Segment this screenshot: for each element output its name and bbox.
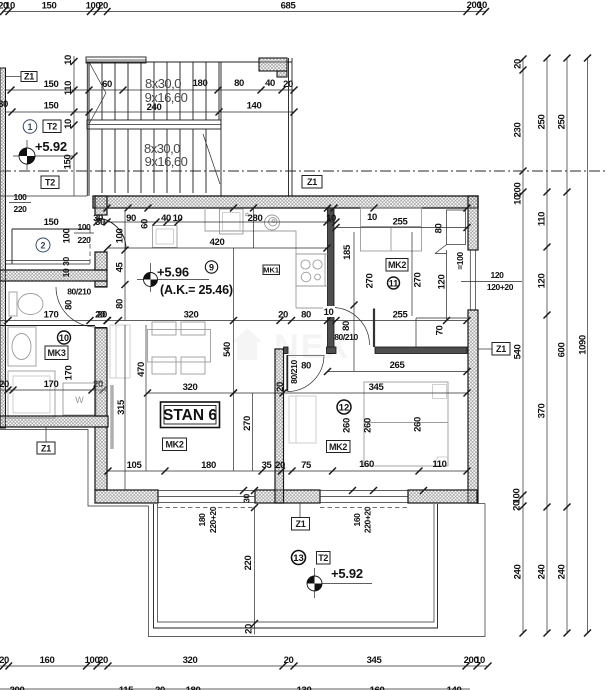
bottom wall segment left bbox=[95, 490, 158, 503]
bottom dimension line 1 bbox=[0, 655, 492, 670]
sliding panel gray bbox=[110, 385, 114, 449]
WC/bath partition line bbox=[0, 325, 95, 327]
right wall window 120 bbox=[468, 250, 478, 310]
svg-text:150: 150 bbox=[63, 155, 74, 170]
balcony dashed overhead line bbox=[158, 507, 408, 509]
room11 door arc bbox=[332, 308, 370, 346]
svg-text:=100: =100 bbox=[455, 252, 465, 270]
room circle 11 bbox=[388, 277, 400, 289]
svg-text:250: 250 bbox=[557, 115, 568, 130]
svg-text:100: 100 bbox=[14, 192, 28, 202]
WC dim line y320.5 bbox=[0, 310, 111, 325]
svg-text:Z1: Z1 bbox=[307, 177, 317, 187]
svg-text:600: 600 bbox=[557, 343, 568, 358]
kitchen dim line 420 bbox=[104, 237, 331, 252]
bed bbox=[364, 382, 448, 466]
svg-text:20: 20 bbox=[283, 79, 293, 90]
window spec 100/220 room2 bbox=[74, 222, 94, 245]
kitchen sink bbox=[220, 209, 249, 234]
svg-text:80: 80 bbox=[301, 310, 311, 321]
svg-text:270: 270 bbox=[413, 273, 424, 288]
svg-text:185: 185 bbox=[342, 244, 353, 260]
svg-text:240: 240 bbox=[147, 102, 162, 113]
svg-text:30: 30 bbox=[0, 99, 8, 110]
svg-text:255: 255 bbox=[393, 310, 409, 321]
svg-text:40: 40 bbox=[161, 213, 171, 224]
svg-text:T2: T2 bbox=[45, 178, 55, 188]
toilet tank bbox=[9, 292, 17, 316]
svg-text:20: 20 bbox=[512, 501, 523, 511]
svg-text:20: 20 bbox=[278, 310, 288, 321]
section dash-dot axis line bbox=[0, 170, 606, 172]
svg-text:90: 90 bbox=[126, 213, 136, 224]
room label box MK3 bbox=[45, 346, 68, 360]
svg-text:T2: T2 bbox=[318, 553, 328, 563]
svg-text:10: 10 bbox=[324, 307, 334, 318]
room label box MK2 living bbox=[163, 438, 187, 451]
ticks on top wall inner line bbox=[104, 205, 471, 212]
dimension line y90 bbox=[5, 78, 298, 94]
living dim line y320.5 bbox=[97, 306, 470, 324]
stove with burners bbox=[296, 254, 325, 286]
svg-text:10: 10 bbox=[61, 268, 71, 277]
stove spiral vent bbox=[265, 215, 280, 230]
balcony parapet double line bbox=[154, 504, 438, 628]
svg-text:+5.92: +5.92 bbox=[35, 139, 67, 154]
svg-text:70: 70 bbox=[435, 326, 446, 336]
bottom wall segment middle bbox=[255, 490, 320, 503]
svg-text:220: 220 bbox=[14, 204, 28, 214]
corridor dim 265 bbox=[301, 360, 470, 375]
stairwell right edge bbox=[220, 62, 222, 196]
room circle 12 bbox=[337, 400, 351, 414]
room circle 10 bbox=[58, 331, 71, 344]
svg-text:30: 30 bbox=[61, 257, 71, 266]
svg-text:120: 120 bbox=[437, 275, 448, 290]
door type box T2 lower bbox=[41, 176, 59, 189]
room circle 13 bbox=[292, 551, 306, 565]
svg-text:20: 20 bbox=[155, 685, 165, 690]
stair treads lower flight bbox=[89, 129, 206, 193]
balcony outer facade line bbox=[149, 504, 486, 637]
svg-text:150: 150 bbox=[44, 79, 59, 90]
svg-text:470: 470 bbox=[136, 362, 147, 377]
svg-text:345: 345 bbox=[369, 382, 385, 393]
washbasin bbox=[8, 327, 36, 366]
svg-text:220+20: 220+20 bbox=[208, 506, 218, 533]
svg-text:80: 80 bbox=[115, 299, 126, 309]
bottom wall window opening left bbox=[158, 491, 255, 503]
kitchen appliance square bbox=[153, 226, 178, 248]
stair top landing bar bbox=[86, 57, 146, 63]
svg-text:Z1: Z1 bbox=[24, 72, 34, 82]
svg-text:11: 11 bbox=[389, 279, 399, 289]
svg-text:10: 10 bbox=[59, 333, 69, 343]
interior dark wall kitchen/room11 bbox=[328, 208, 335, 354]
window spec rotated right 160/220+20 bbox=[352, 506, 373, 533]
svg-text:315: 315 bbox=[116, 399, 127, 415]
level symbol kitchen bbox=[137, 263, 209, 292]
bottom wall outer stub right bbox=[477, 503, 485, 505]
svg-text:20: 20 bbox=[244, 624, 255, 634]
svg-text:MK1: MK1 bbox=[263, 266, 279, 275]
stairwell left wall bbox=[87, 62, 89, 196]
dim line y393 bbox=[144, 382, 471, 397]
svg-text:220: 220 bbox=[78, 235, 92, 245]
main apartment left wall segments bbox=[95, 196, 107, 490]
svg-text:STAN 6: STAN 6 bbox=[163, 407, 217, 424]
svg-text:150: 150 bbox=[44, 217, 59, 228]
svg-text:10: 10 bbox=[513, 195, 524, 205]
chain x146 bbox=[136, 325, 147, 471]
svg-text:110: 110 bbox=[432, 459, 446, 470]
living chain x125 bbox=[115, 212, 129, 321]
svg-text:MK2: MK2 bbox=[329, 442, 347, 452]
right vertical dimension chain line 1 bbox=[512, 56, 527, 637]
bottom dimension line 2 partial bbox=[0, 685, 470, 690]
svg-text:60: 60 bbox=[140, 219, 151, 229]
svg-text:180: 180 bbox=[193, 78, 208, 89]
svg-text:80: 80 bbox=[64, 300, 75, 310]
room circle 9 bbox=[205, 261, 217, 273]
svg-text:20: 20 bbox=[98, 655, 108, 666]
svg-text:140: 140 bbox=[247, 101, 262, 112]
svg-text:30: 30 bbox=[93, 213, 103, 224]
svg-text:180: 180 bbox=[197, 513, 207, 527]
svg-text:Z1: Z1 bbox=[296, 519, 306, 529]
svg-text:170: 170 bbox=[44, 379, 59, 390]
svg-text:240: 240 bbox=[557, 565, 568, 580]
svg-text:150: 150 bbox=[42, 1, 57, 12]
svg-text:20: 20 bbox=[0, 379, 9, 390]
svg-text:20: 20 bbox=[275, 382, 286, 392]
svg-text:12: 12 bbox=[339, 403, 350, 414]
svg-text:160: 160 bbox=[359, 459, 374, 470]
door type box T2 balcony bbox=[317, 552, 331, 565]
ticks at bottom wall bbox=[240, 487, 427, 494]
svg-text:270: 270 bbox=[365, 274, 376, 289]
right vertical dimension chain line 3 bbox=[557, 55, 571, 637]
svg-text:160: 160 bbox=[370, 685, 385, 690]
chain x125 lower 315 bbox=[116, 325, 127, 490]
svg-text:160: 160 bbox=[352, 513, 362, 527]
top dimension line bbox=[0, 0, 489, 15]
WC door jambs bbox=[95, 287, 107, 328]
room circle 1 bbox=[23, 120, 37, 134]
chairs bbox=[152, 322, 205, 374]
room11 corner closet bbox=[435, 210, 466, 254]
svg-text:10: 10 bbox=[367, 212, 377, 223]
kitchen counter edge bbox=[205, 208, 328, 308]
svg-text:180: 180 bbox=[201, 460, 216, 471]
svg-text:120: 120 bbox=[491, 270, 505, 280]
svg-text:280: 280 bbox=[248, 213, 263, 224]
svg-text:105: 105 bbox=[127, 460, 143, 471]
balcony chain x254.5 bbox=[243, 504, 258, 635]
svg-text:20: 20 bbox=[98, 1, 108, 12]
main apartment right wall lower bbox=[468, 310, 478, 503]
svg-text:1: 1 bbox=[27, 122, 32, 132]
left apartment entry line bbox=[0, 195, 87, 197]
chain x252.5 bbox=[242, 393, 253, 471]
svg-text:170: 170 bbox=[44, 310, 59, 321]
svg-text:80/210: 80/210 bbox=[289, 360, 299, 384]
svg-text:10: 10 bbox=[173, 213, 183, 224]
svg-text:35: 35 bbox=[262, 460, 273, 471]
dining table bbox=[148, 330, 211, 363]
entry door arc bbox=[95, 218, 126, 249]
bottom wall segment right bbox=[408, 490, 477, 503]
svg-text:240: 240 bbox=[537, 565, 548, 580]
right vertical dimension chain line 4 bbox=[578, 55, 592, 637]
svg-text:9x16,60: 9x16,60 bbox=[145, 154, 188, 169]
STAN 6 title box bbox=[161, 402, 220, 428]
bath bottom hatched wall bbox=[0, 416, 108, 427]
room11 wardrobe bbox=[361, 208, 422, 251]
svg-text:T2: T2 bbox=[47, 122, 57, 132]
svg-text:540: 540 bbox=[513, 345, 524, 360]
svg-text:130: 130 bbox=[297, 685, 312, 690]
svg-text:240: 240 bbox=[513, 565, 524, 580]
WC top hatched wall bbox=[0, 270, 107, 281]
left exterior hatched wall bbox=[0, 68, 6, 428]
corridor wall lines right of stairs bbox=[289, 58, 293, 196]
svg-text:160: 160 bbox=[40, 655, 55, 666]
svg-text:8x30,0: 8x30,0 bbox=[145, 76, 181, 91]
room label box MK2 room11 bbox=[386, 259, 408, 272]
svg-text:80/210: 80/210 bbox=[67, 287, 91, 297]
svg-text:75: 75 bbox=[301, 460, 312, 471]
window spec 100/220 top-left bbox=[9, 192, 31, 214]
svg-text:+5.92: +5.92 bbox=[331, 566, 363, 581]
level symbol left bbox=[13, 140, 74, 170]
room 2 dashed opening bbox=[89, 229, 91, 266]
dimension line y112 bbox=[5, 101, 298, 116]
svg-text:420: 420 bbox=[210, 237, 225, 248]
svg-text:1090: 1090 bbox=[578, 335, 589, 355]
window spec rotated left 180/220+20 bbox=[197, 506, 218, 533]
svg-text:250: 250 bbox=[537, 115, 548, 130]
svg-text:20: 20 bbox=[284, 655, 294, 666]
axis marker Z1 right bbox=[478, 343, 510, 356]
room label box MK2 room12 bbox=[327, 441, 351, 453]
svg-text:30: 30 bbox=[242, 494, 252, 503]
svg-text:Z1: Z1 bbox=[496, 344, 506, 354]
svg-text:170: 170 bbox=[64, 366, 75, 381]
window fraction 120/120+20 right bbox=[461, 270, 522, 292]
svg-text:265: 265 bbox=[390, 360, 406, 371]
facade outline lower-left bbox=[0, 430, 149, 507]
svg-text:20: 20 bbox=[275, 460, 285, 471]
axis marker Z1 top-left bbox=[5, 72, 37, 82]
bottom interior dim line y471 bbox=[105, 459, 471, 475]
room 2 bottom double edge bbox=[5, 261, 90, 265]
svg-text:260: 260 bbox=[342, 418, 353, 433]
svg-text:260: 260 bbox=[413, 417, 424, 432]
svg-text:Z1: Z1 bbox=[41, 444, 51, 454]
chain x233.5 bbox=[222, 248, 237, 471]
room 2 top edge bbox=[12, 229, 90, 264]
axis marker Z1 bottom-left bbox=[37, 427, 55, 454]
room11 vertical chains bbox=[342, 224, 465, 371]
svg-text:W: W bbox=[75, 395, 84, 405]
svg-text:MK2: MK2 bbox=[388, 260, 406, 270]
svg-text:(A.K.= 25.46): (A.K.= 25.46) bbox=[160, 283, 233, 297]
svg-text:115: 115 bbox=[119, 685, 134, 690]
svg-text:685: 685 bbox=[281, 1, 297, 12]
svg-text:230: 230 bbox=[513, 123, 524, 138]
svg-text:100: 100 bbox=[115, 229, 126, 244]
axis marker Z1 bottom wall bbox=[292, 503, 310, 530]
washing machine bbox=[63, 383, 96, 415]
toilet bowl bbox=[18, 294, 43, 315]
svg-text:40: 40 bbox=[265, 78, 275, 89]
svg-text:200: 200 bbox=[10, 685, 25, 690]
svg-text:320: 320 bbox=[183, 382, 198, 393]
right vertical dimension chain line 2 bbox=[537, 55, 551, 637]
svg-text:13: 13 bbox=[293, 553, 304, 564]
svg-text:260: 260 bbox=[363, 418, 374, 433]
main apartment right wall upper bbox=[468, 196, 478, 250]
room11 dim line 255 top bbox=[333, 217, 471, 232]
svg-text:120+20: 120+20 bbox=[487, 282, 514, 292]
svg-text:110: 110 bbox=[63, 81, 74, 95]
svg-text:100: 100 bbox=[62, 229, 73, 244]
svg-text:10: 10 bbox=[326, 213, 336, 224]
svg-text:110: 110 bbox=[537, 212, 548, 226]
svg-text:80: 80 bbox=[434, 224, 445, 234]
svg-text:MK2: MK2 bbox=[165, 440, 183, 450]
bottom wall window opening right bbox=[320, 491, 408, 503]
svg-text:180: 180 bbox=[186, 685, 201, 690]
stair top edge line bbox=[86, 61, 292, 63]
shower tray bbox=[8, 371, 55, 418]
svg-text:MK3: MK3 bbox=[47, 348, 65, 358]
main apartment top hatched wall bbox=[93, 196, 478, 208]
WC door arc bbox=[56, 287, 96, 327]
svg-text:+5.96: +5.96 bbox=[157, 265, 189, 280]
watermark house logo bbox=[232, 328, 350, 366]
svg-text:45: 45 bbox=[115, 262, 126, 273]
svg-text:345: 345 bbox=[367, 655, 383, 666]
vertical dimension chain x74 bbox=[63, 55, 78, 196]
svg-text:10: 10 bbox=[475, 655, 485, 666]
svg-text:320: 320 bbox=[184, 310, 199, 321]
dim extension x253.5 bbox=[253, 208, 255, 248]
living room couch bbox=[110, 325, 130, 378]
room label box MK1 bbox=[263, 265, 280, 275]
svg-text:140: 140 bbox=[447, 685, 462, 690]
svg-text:270: 270 bbox=[242, 416, 253, 431]
stair treads upper flight bbox=[89, 62, 219, 120]
svg-text:20: 20 bbox=[513, 59, 524, 69]
stair mid landing bar bbox=[87, 120, 221, 129]
svg-text:220: 220 bbox=[243, 556, 254, 571]
svg-text:220+20: 220+20 bbox=[363, 506, 373, 533]
svg-text:10: 10 bbox=[477, 0, 487, 11]
room12 door leaf and arc bbox=[287, 355, 324, 392]
room circle 2 bbox=[36, 238, 50, 252]
svg-text:60: 60 bbox=[102, 79, 112, 90]
bath dim line y390 bbox=[0, 379, 107, 394]
svg-text:100: 100 bbox=[78, 222, 92, 232]
svg-text:10: 10 bbox=[63, 119, 74, 129]
svg-text:2: 2 bbox=[40, 241, 45, 251]
svg-text:20: 20 bbox=[0, 655, 9, 666]
svg-text:120: 120 bbox=[537, 274, 548, 289]
kitchen dim line y222 bbox=[93, 212, 377, 229]
door type box T2 bbox=[43, 120, 61, 133]
room11 niche line bbox=[416, 318, 467, 347]
svg-text:10: 10 bbox=[63, 55, 74, 65]
axis marker Z1 on dash-dot bbox=[302, 176, 322, 189]
interior hatched wall living/room12 bbox=[275, 349, 284, 503]
room12 wardrobe bbox=[289, 396, 316, 443]
svg-text:20: 20 bbox=[97, 310, 107, 321]
svg-text:150: 150 bbox=[44, 101, 59, 112]
room12 rotated dims 260 bbox=[275, 382, 424, 433]
svg-text:320: 320 bbox=[183, 655, 198, 666]
svg-text:255: 255 bbox=[393, 217, 409, 228]
room12 top wall segments bbox=[284, 347, 468, 354]
svg-text:9: 9 bbox=[209, 263, 214, 273]
svg-text:80/210: 80/210 bbox=[334, 332, 358, 342]
svg-text:370: 370 bbox=[537, 404, 548, 419]
svg-text:10: 10 bbox=[5, 1, 15, 12]
level symbol balcony bbox=[307, 568, 372, 598]
hatched wall block top-right of stairs bbox=[259, 58, 287, 77]
stair break diagonals bbox=[89, 62, 220, 184]
svg-text:80: 80 bbox=[301, 361, 311, 372]
svg-text:80: 80 bbox=[234, 78, 244, 89]
svg-text:540: 540 bbox=[222, 342, 233, 357]
svg-text:80: 80 bbox=[341, 321, 352, 331]
